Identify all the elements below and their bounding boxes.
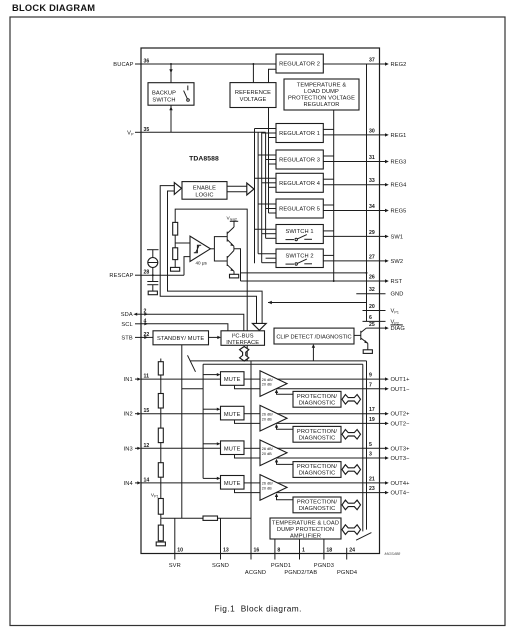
resistor R4 input bias xyxy=(158,394,163,409)
wire REG3 right stub xyxy=(323,155,333,157)
wire REG4 right stub xyxy=(323,178,333,180)
bus hollow double arrow I2C to audio bus xyxy=(240,347,249,362)
svg-text:ACGND: ACGND xyxy=(245,570,266,576)
svg-text:20 dB: 20 dB xyxy=(262,487,272,491)
ground divider xyxy=(171,267,180,271)
transistor Q3 diag driver xyxy=(354,328,368,343)
svg-text:OUT4−: OUT4− xyxy=(391,491,411,497)
svg-text:MUTE: MUTE xyxy=(224,481,241,487)
bus hollow L path inner line xyxy=(168,191,263,324)
svg-text:20: 20 xyxy=(369,304,375,310)
pin 3 OUT3- xyxy=(369,452,410,463)
wire audio control bus lower xyxy=(203,363,363,365)
svg-text:GND: GND xyxy=(391,292,404,298)
svg-text:37: 37 xyxy=(369,58,375,64)
pin 24 PGND4 xyxy=(337,548,357,576)
svg-text:5: 5 xyxy=(369,442,372,448)
wire REG4 output xyxy=(323,184,379,186)
svg-text:PROTECTION/: PROTECTION/ xyxy=(297,464,337,470)
temperature and load dump protection voltage regulator block xyxy=(284,79,359,110)
svg-text:MUTE: MUTE xyxy=(224,412,241,418)
standby mute block xyxy=(153,331,209,345)
protection diagnostic block P1 xyxy=(293,391,341,407)
svg-text:OUT2−: OUT2− xyxy=(391,421,411,427)
ground transistor xyxy=(230,274,239,278)
pin 21 OUT4+ xyxy=(369,476,410,487)
svg-text:9: 9 xyxy=(369,373,372,379)
pin 23 OUT4- xyxy=(369,486,410,497)
pin 11 IN1 xyxy=(124,374,150,384)
svg-text:PROTECTION/: PROTECTION/ xyxy=(297,394,337,400)
supply terminal above current source xyxy=(147,250,159,258)
svg-text:RESCAP: RESCAP xyxy=(109,273,133,279)
svg-text:PROTECTION VOLTAGE: PROTECTION VOLTAGE xyxy=(288,96,355,102)
wire REG1 output xyxy=(323,134,379,136)
op-amp A4 xyxy=(260,475,287,501)
capacitor C1 xyxy=(147,282,158,285)
wire temp regulator bottom to RST rail xyxy=(333,110,335,281)
wire reset status line xyxy=(241,272,367,274)
svg-text:REFERENCE: REFERENCE xyxy=(235,90,271,96)
svg-text:1: 1 xyxy=(302,548,305,554)
svg-text:OUT4+: OUT4+ xyxy=(391,481,411,487)
wire OUT1- line xyxy=(277,388,380,390)
wire REG5 output xyxy=(323,210,379,212)
svg-text:REG1: REG1 xyxy=(391,133,407,139)
resistor R7 xyxy=(158,499,163,515)
wire mute M1 to amp xyxy=(244,378,260,380)
wire SW1 right stub xyxy=(323,230,333,232)
wire audio bus right vertical outer xyxy=(366,361,368,530)
svg-text:AMPLIFIER: AMPLIFIER xyxy=(290,533,321,539)
pin 34 REG5 xyxy=(369,204,406,215)
svg-text:18: 18 xyxy=(326,548,332,554)
regulator U3 REGULATOR 1 xyxy=(276,124,323,143)
wire RESCAP pin line xyxy=(135,274,184,276)
resistor R8 xyxy=(158,525,163,541)
wire reset status to I2C bus with arrow xyxy=(268,273,367,304)
svg-text:I²C-BUS: I²C-BUS xyxy=(232,333,254,339)
svg-text:DUMP PROTECTION: DUMP PROTECTION xyxy=(277,527,334,533)
svg-text:34: 34 xyxy=(369,204,375,210)
wire SW1 output xyxy=(323,235,379,237)
svg-text:30: 30 xyxy=(369,128,375,134)
wire reset output down xyxy=(234,249,241,281)
svg-text:SGND: SGND xyxy=(212,563,229,569)
pin 5 OUT3+ xyxy=(369,442,410,453)
ground diag xyxy=(363,350,372,354)
svg-text:LOGIC: LOGIC xyxy=(195,193,213,199)
wire VP pin stub xyxy=(135,131,141,133)
pin 14 IN4 xyxy=(124,477,150,487)
transistor Q1 Q2 darlington xyxy=(210,227,234,271)
node BUCAP junctions xyxy=(170,63,254,65)
pin 20 VP1 xyxy=(363,304,399,315)
clip detect diagnostic block xyxy=(274,328,354,344)
svg-text:BLOCK DIAGRAM: BLOCK DIAGRAM xyxy=(12,3,95,13)
wire REG3 left stubs xyxy=(258,155,276,164)
wire chain R3 to IN1 xyxy=(160,375,162,394)
svg-text:REG2: REG2 xyxy=(391,62,407,68)
svg-text:REGULATOR 5: REGULATOR 5 xyxy=(279,207,320,213)
wire BUCAP pin stub xyxy=(135,63,141,65)
svg-text:3: 3 xyxy=(369,452,372,458)
wire input bias chain xyxy=(160,359,162,362)
bus hollow arrowhead into enable logic xyxy=(174,183,181,195)
pin 36 BUCAP label xyxy=(113,59,149,69)
node RST rail junction xyxy=(333,280,335,282)
wire capacitor to ground xyxy=(152,285,154,291)
pin 28 RESCAP label xyxy=(109,270,149,280)
svg-text:SW2: SW2 xyxy=(391,259,404,265)
wire mute M1 lower path xyxy=(235,385,261,389)
op-amp A2 xyxy=(260,405,287,431)
pin 37 REG2 xyxy=(369,58,406,69)
pin 19 OUT2- xyxy=(369,417,410,428)
svg-text:DIAG: DIAG xyxy=(391,326,405,332)
wire mute M3 to amp xyxy=(244,447,260,449)
svg-text:20 dB: 20 dB xyxy=(262,417,272,421)
bus hollow arrow enable logic to regulator bus xyxy=(227,183,254,195)
wire REG5 left stubs xyxy=(258,204,276,213)
wire mute M4 to amp xyxy=(244,482,260,484)
svg-text:PROTECTION/: PROTECTION/ xyxy=(297,500,337,506)
svg-text:TDA8588: TDA8588 xyxy=(189,156,219,163)
svg-text:SVR: SVR xyxy=(169,563,181,569)
pin 17 OUT2+ xyxy=(369,407,410,418)
svg-text:8: 8 xyxy=(277,548,280,554)
wire mute control arrow M3 xyxy=(203,442,220,445)
wire audio control bus upper xyxy=(191,360,367,362)
wire RST line xyxy=(241,280,380,282)
svg-text:29: 29 xyxy=(369,230,375,236)
svg-text:13: 13 xyxy=(223,548,229,554)
svg-text:BACKUP: BACKUP xyxy=(152,90,176,96)
wire OUT4- line xyxy=(277,492,380,494)
wire SW1 left stubs xyxy=(255,229,277,238)
op-amp A1 xyxy=(260,371,287,397)
ground capacitor xyxy=(148,291,157,295)
svg-text:SWITCH: SWITCH xyxy=(152,97,175,103)
current source I1 xyxy=(148,258,158,268)
wire mute control arrow M4 xyxy=(203,477,220,480)
pin 35 VP label xyxy=(127,127,149,137)
resistor R5 input bias xyxy=(158,428,163,443)
svg-text:21: 21 xyxy=(369,476,375,482)
wire audio bus to clip detect with arrow xyxy=(312,344,315,361)
chip outline TDA8588 xyxy=(141,48,380,554)
terminal Vreg2 xyxy=(227,215,239,227)
bus hollow arrow P3 xyxy=(342,465,361,475)
svg-text:MUTE: MUTE xyxy=(224,446,241,452)
reference voltage block xyxy=(230,83,276,108)
wire SW2 right stub xyxy=(323,254,333,256)
wire VP rail xyxy=(141,131,266,133)
svg-text:24: 24 xyxy=(349,548,355,554)
mute block M1 xyxy=(221,372,245,386)
wire mute control arrow M1 xyxy=(203,373,220,376)
pin 10 SVR xyxy=(169,518,183,569)
wire standby mute down xyxy=(181,345,183,518)
svg-text:OUT1+: OUT1+ xyxy=(391,377,411,383)
wire OUT1+ line xyxy=(277,378,380,380)
regulator U2 REGULATOR 2 xyxy=(276,54,323,73)
regulator U4 REGULATOR 3 xyxy=(276,150,323,169)
switch block SWITCH 1 xyxy=(276,225,323,244)
op-amp A3 xyxy=(260,440,287,466)
svg-text:26 dB/: 26 dB/ xyxy=(262,413,274,417)
pin 33 REG4 xyxy=(369,178,406,189)
wire IN1 line xyxy=(141,378,221,380)
node RESCAP junction xyxy=(152,274,154,276)
wire REG1 right stub xyxy=(323,128,333,130)
svg-text:40 μs: 40 μs xyxy=(196,261,208,266)
wire OUT2- line xyxy=(277,422,380,424)
wire comparator lower input from RESCAP xyxy=(184,257,190,276)
pin 26 RST xyxy=(369,275,403,286)
pin 2 SDA xyxy=(121,309,148,319)
wire chain below SVR node xyxy=(160,518,162,525)
svg-text:23: 23 xyxy=(369,486,375,492)
svg-text:DIAGNOSTIC: DIAGNOSTIC xyxy=(299,400,336,406)
svg-text:BUCAP: BUCAP xyxy=(113,62,133,68)
switch block SWITCH 2 xyxy=(276,249,323,268)
bus slash mark xyxy=(188,355,196,372)
wire OUT3- line xyxy=(277,457,380,459)
svg-text:SDA: SDA xyxy=(121,312,133,318)
pin 1 PGND2/TAB xyxy=(284,539,317,576)
wire REG3 output xyxy=(323,161,379,163)
wire chain R6 to IN4 xyxy=(160,477,162,498)
svg-text:TEMPERATURE & LOAD: TEMPERATURE & LOAD xyxy=(272,521,339,527)
bus hollow L path I2C to enable logic outer line xyxy=(160,186,256,324)
wire mute M4 lower path xyxy=(235,489,261,493)
resistor R3 input bias xyxy=(158,362,163,375)
wire REG2 left lower to reference voltage xyxy=(269,69,277,82)
mute block M4 xyxy=(221,476,245,490)
svg-text:IN3: IN3 xyxy=(124,446,133,452)
svg-text:SWITCH 1: SWITCH 1 xyxy=(286,229,314,235)
resistor R6 input bias xyxy=(158,463,163,478)
svg-text:19: 19 xyxy=(369,417,375,423)
wire IN3 line xyxy=(141,447,221,449)
pin 16 ACGND xyxy=(245,361,266,576)
svg-text:REG3: REG3 xyxy=(391,160,407,166)
wire divider mid node to comparator xyxy=(175,235,190,248)
wire protection sense A4 xyxy=(275,493,293,500)
svg-text:IN4: IN4 xyxy=(124,481,133,487)
wire BUCAP rail (pin 36 to REGULATOR 2) xyxy=(141,63,276,65)
svg-text:LOAD DUMP: LOAD DUMP xyxy=(304,89,339,95)
protection diagnostic block P2 xyxy=(293,426,341,442)
svg-text:STB: STB xyxy=(121,335,133,341)
wire bus vertical v2 xyxy=(257,132,259,253)
wire mute control rail xyxy=(202,364,204,478)
resistor R2 xyxy=(173,248,178,260)
svg-text:REGULATOR: REGULATOR xyxy=(304,102,340,108)
pin 9 OUT1+ xyxy=(369,373,410,384)
svg-text:VOLTAGE: VOLTAGE xyxy=(240,97,267,103)
pin 27 SW2 xyxy=(369,254,403,265)
wire backup switch bottom to VP rail xyxy=(169,105,172,132)
wire standby mute to I2C with arrow xyxy=(209,336,222,339)
pin 15 IN2 xyxy=(124,408,150,418)
regulator U6 REGULATOR 5 xyxy=(276,199,323,218)
svg-text:REGULATOR 2: REGULATOR 2 xyxy=(279,62,320,68)
svg-text:SCL: SCL xyxy=(121,322,132,328)
wire REG2 output xyxy=(323,63,379,65)
svg-text:DIAGNOSTIC: DIAGNOSTIC xyxy=(299,435,336,441)
pin 32 GND xyxy=(356,287,403,298)
svg-text:7: 7 xyxy=(369,382,372,388)
svg-text:MUTE: MUTE xyxy=(224,377,241,383)
wire chain R5 to IN3 xyxy=(160,443,162,463)
wire IN2 line xyxy=(141,413,221,415)
svg-text:33: 33 xyxy=(369,178,375,184)
svg-text:REGULATOR 1: REGULATOR 1 xyxy=(279,131,320,137)
wire standby link to mute rail xyxy=(182,388,203,390)
resistor R1 xyxy=(173,222,178,235)
wire STB to standby mute xyxy=(141,336,153,338)
svg-text:SW1: SW1 xyxy=(391,234,404,240)
svg-text:TEMPERATURE &: TEMPERATURE & xyxy=(297,83,347,89)
wire protection sense A2 xyxy=(275,424,293,429)
svg-text:26 dB/: 26 dB/ xyxy=(262,378,274,382)
wire current source to RESCAP node xyxy=(152,268,154,282)
pin 4 SCL xyxy=(121,318,148,328)
protection diagnostic block P4 xyxy=(293,497,341,513)
wire chain R4 to IN2 xyxy=(160,408,162,428)
backup switch U1 xyxy=(148,83,194,106)
bus hollow arrow P2 xyxy=(342,430,361,440)
wire R7 to SVR node xyxy=(160,514,162,518)
svg-text:SWITCH 2: SWITCH 2 xyxy=(286,253,314,259)
enable logic block xyxy=(182,182,227,200)
wire mute M3 lower path xyxy=(235,455,261,459)
wire bus vertical v1 xyxy=(254,129,256,264)
svg-text:REGULATOR 3: REGULATOR 3 xyxy=(279,158,320,164)
ground input chain xyxy=(156,542,165,546)
svg-text:DIAGNOSTIC: DIAGNOSTIC xyxy=(299,471,336,477)
svg-text:32: 32 xyxy=(369,287,375,293)
pin 8 PGND1 xyxy=(271,539,291,569)
wire protection sense A3 xyxy=(275,459,293,465)
svg-text:Fig.1 Block diagram.: Fig.1 Block diagram. xyxy=(215,603,302,613)
svg-text:26 dB/: 26 dB/ xyxy=(262,447,274,451)
svg-text:27: 27 xyxy=(369,254,375,260)
wire SW2 output xyxy=(323,260,379,262)
pin 22 STB xyxy=(121,332,149,342)
svg-text:20 dB: 20 dB xyxy=(262,383,272,387)
svg-text:PGND3: PGND3 xyxy=(314,563,334,569)
pin 12 IN3 xyxy=(124,443,150,453)
pin 29 SW1 xyxy=(369,230,403,241)
svg-text:PGND2/TAB: PGND2/TAB xyxy=(284,570,317,576)
svg-text:31: 31 xyxy=(369,155,375,161)
svg-text:16: 16 xyxy=(254,548,260,554)
wire OUT3+ line xyxy=(277,447,380,449)
mute block M3 xyxy=(221,441,245,455)
wire OUT4+ line xyxy=(277,482,380,484)
wire REG4 left stubs xyxy=(255,178,277,187)
protection diagnostic block P3 xyxy=(293,462,341,478)
bus hollow arrow P1 xyxy=(342,395,361,405)
pin 18 PGND3 xyxy=(314,539,334,569)
bus slash mark bottom xyxy=(356,533,371,541)
wire R8 to ground xyxy=(160,541,162,542)
svg-text:IN2: IN2 xyxy=(124,412,133,418)
svg-text:REGULATOR 4: REGULATOR 4 xyxy=(279,181,320,187)
wire SW2 left stubs xyxy=(258,254,276,263)
svg-text:10: 10 xyxy=(177,548,183,554)
wire protection sense A1 xyxy=(275,389,293,394)
resistor R9 horizontal xyxy=(203,516,218,520)
svg-text:DIAGNOSTIC: DIAGNOSTIC xyxy=(299,506,336,512)
bus hollow arrow P4 xyxy=(342,500,361,510)
svg-text:STANDBY/ MUTE: STANDBY/ MUTE xyxy=(157,336,204,342)
wire mute M2 to amp xyxy=(244,413,260,415)
svg-text:PGND4: PGND4 xyxy=(337,570,357,576)
svg-text:REG4: REG4 xyxy=(391,183,407,189)
wire OUT2+ line xyxy=(277,413,380,415)
wire bus vertical v3 xyxy=(261,132,263,262)
bus hollow arrowhead into I2C interface xyxy=(252,323,266,330)
wire REG1 left stubs xyxy=(255,129,277,138)
wire SDA to I2C interface xyxy=(141,314,244,331)
svg-text:26 dB/: 26 dB/ xyxy=(262,482,274,486)
svg-text:OUT2+: OUT2+ xyxy=(391,412,411,418)
svg-text:26: 26 xyxy=(369,275,375,281)
svg-text:OUT3+: OUT3+ xyxy=(391,446,411,452)
pin 7 OUT1- xyxy=(369,382,410,393)
svg-text:PGND1: PGND1 xyxy=(271,563,291,569)
svg-text:INTERFACE: INTERFACE xyxy=(226,340,259,346)
pin 31 REG3 xyxy=(369,155,406,166)
wire IN4 line xyxy=(141,482,221,484)
comparator 40us xyxy=(190,236,210,265)
wire supply vertical from REG2 line xyxy=(366,64,368,321)
svg-text:6: 6 xyxy=(369,315,372,321)
mute block M2 xyxy=(221,406,245,420)
regulator U5 REGULATOR 4 xyxy=(276,173,323,192)
svg-text:OUT1−: OUT1− xyxy=(391,387,411,393)
svg-text:CLIP DETECT /DIAGNOSTIC: CLIP DETECT /DIAGNOSTIC xyxy=(276,335,351,341)
svg-text:ENABLE: ENABLE xyxy=(193,186,216,192)
wire SVR horizontal line xyxy=(161,517,251,519)
wire reference voltage bottom bus v5 xyxy=(268,108,270,214)
wire R2 to ground xyxy=(174,260,176,268)
wire diag emitter to ground xyxy=(367,343,369,350)
wire audio bus right vertical inner xyxy=(362,364,364,531)
temperature and load dump protection amplifier block xyxy=(270,518,341,539)
wire mute control arrow M2 xyxy=(203,408,220,411)
svg-text:REG5: REG5 xyxy=(391,209,407,215)
wire bus vertical v4 xyxy=(265,132,267,238)
pin 25 DIAG xyxy=(366,322,405,332)
svg-text:RST: RST xyxy=(391,279,403,285)
svg-text:20 dB: 20 dB xyxy=(262,452,272,456)
wire divider top rail xyxy=(175,209,247,361)
wire REG5 right stub xyxy=(323,204,333,206)
wire mute M2 lower path xyxy=(235,420,261,424)
pin 6 VP2 xyxy=(363,315,399,326)
I2C-bus interface block xyxy=(221,331,265,346)
svg-text:OUT3−: OUT3− xyxy=(391,456,411,462)
svg-text:17: 17 xyxy=(369,407,375,413)
node reset status junction xyxy=(366,272,368,274)
wire BUCAP to backup switch top xyxy=(169,64,172,83)
bus hollow arrow temp amplifier xyxy=(342,525,361,535)
